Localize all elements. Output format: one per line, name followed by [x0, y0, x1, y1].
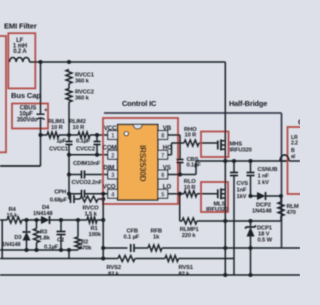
svg-text:1 kV: 1 kV	[258, 180, 270, 186]
wire bus down	[68, 155, 70, 199]
svg-text:15 k: 15 k	[7, 213, 19, 219]
resistor RVCC2	[66, 84, 94, 103]
node VS-halfbridge	[223, 159, 227, 163]
resistor RLO	[180, 179, 218, 197]
transistor MHS highlight box	[201, 132, 229, 158]
svg-text:CVCO2.2nF: CVCO2.2nF	[72, 180, 103, 186]
pin 7 HO	[158, 145, 172, 160]
svg-text:470k: 470k	[79, 246, 92, 252]
svg-text:CDIM10nF: CDIM10nF	[73, 161, 101, 167]
node VCO-R1	[101, 192, 105, 196]
svg-text:CVCC2: CVCC2	[76, 146, 95, 152]
svg-text:10 R: 10 R	[73, 125, 86, 131]
section label Half-Bridge	[229, 99, 267, 108]
svg-text:360 k: 360 k	[75, 79, 90, 85]
wire top rail	[30, 61, 226, 63]
resistor RLIM1	[41, 119, 70, 138]
resistor RLMP2	[278, 196, 299, 221]
pin 2 COM	[103, 145, 118, 160]
svg-text:EMI Filter: EMI Filter	[4, 22, 37, 31]
wire RVCC to VCC	[68, 102, 70, 135]
capacitor CBUS value label	[17, 105, 38, 124]
section label EMI Filter	[4, 22, 37, 31]
wire ground drop	[67, 248, 71, 259]
resistor RFB	[148, 229, 300, 252]
svg-text:Ou: Ou	[298, 118, 300, 127]
resistor RVCO	[80, 196, 103, 218]
svg-text:1N4148: 1N4148	[2, 242, 20, 248]
svg-text:0.2 A: 0.2 A	[13, 49, 27, 55]
svg-text:C1: C1	[57, 238, 64, 244]
svg-text:IRFU320: IRFU320	[230, 147, 252, 153]
inductor LRES highlight box	[288, 127, 308, 194]
section label Bus Cap	[11, 91, 41, 100]
resistor RLMP1	[180, 194, 282, 239]
section label Output (cut)	[298, 118, 309, 127]
svg-text:1k: 1k	[153, 235, 160, 241]
diode D4	[33, 205, 61, 224]
node VCC junction	[67, 133, 71, 137]
svg-text:Bus Cap: Bus Cap	[11, 91, 41, 100]
inductor LRES	[280, 135, 300, 161]
inductor LF value label	[13, 38, 28, 55]
resistor RVCC1	[66, 70, 95, 85]
wire left edge	[1, 220, 3, 259]
svg-text:CSNUB: CSNUB	[258, 167, 278, 173]
capacitor CDIM	[67, 161, 108, 179]
node COM junction	[67, 153, 71, 157]
node CBUS-RLIM1	[38, 133, 42, 137]
IC IRS2530D body	[118, 125, 158, 201]
svg-text:RVS2: RVS2	[107, 265, 121, 271]
wire LO	[168, 193, 180, 195]
svg-text:2.2: 2.2	[291, 141, 298, 147]
svg-text:0.1 µF: 0.1 µF	[124, 235, 140, 241]
svg-text:IRFU320: IRFU320	[206, 207, 228, 213]
svg-text:0.1µF: 0.1µF	[187, 162, 202, 168]
wire VS pin	[168, 161, 196, 177]
svg-text:CVCC1: CVCC1	[49, 146, 69, 152]
inductor LF	[10, 58, 30, 63]
resistor RLIM2	[69, 119, 108, 138]
node R3 top	[34, 218, 38, 222]
node MLS source-RLMP1	[223, 219, 227, 223]
wire ground left	[0, 248, 78, 252]
pin 8 VB	[158, 125, 172, 140]
capacitor CBS	[177, 157, 202, 175]
svg-text:1N4148: 1N4148	[252, 209, 272, 215]
transistor MLS highlight box	[201, 182, 228, 212]
svg-text:220 k: 220 k	[182, 233, 197, 239]
IC IRS2530D name	[138, 145, 147, 182]
svg-text:RVS1: RVS1	[179, 265, 194, 271]
node LO junction	[178, 192, 182, 196]
EMI filter highlight box	[8, 33, 35, 88]
op-amp U1 IRS2530D highlight box	[103, 118, 178, 204]
wire D3 junction	[24, 218, 36, 222]
wire COM return left	[0, 165, 41, 167]
CBUS highlight box	[12, 104, 48, 129]
svg-text:0.1µF: 0.1µF	[76, 139, 91, 145]
diode D3	[2, 220, 31, 250]
svg-text:0.5 W: 0.5 W	[258, 238, 273, 244]
node DCP1 top	[248, 219, 252, 223]
svg-text:0.68µF: 0.68µF	[50, 198, 68, 204]
resistor R3	[34, 220, 51, 250]
node DCP1-CFB wire	[248, 246, 252, 250]
left offscreen highlight box	[0, 36, 6, 152]
transistor Q1 MHS	[218, 62, 252, 161]
svg-text:IRS2530D: IRS2530D	[138, 145, 147, 182]
capacitor CVCO	[67, 180, 108, 198]
node rail-CBUS	[38, 60, 42, 64]
resistor RVS1	[135, 256, 234, 278]
resistor RVS2	[0, 256, 135, 278]
svg-text:1N4148: 1N4148	[33, 211, 53, 217]
node MLS source-CFB wire	[223, 246, 227, 250]
wire CSNUB ground	[250, 248, 252, 275]
resistor R4	[7, 207, 29, 223]
wire COM	[69, 154, 108, 156]
svg-text:100k: 100k	[89, 232, 102, 238]
resistor RHO	[172, 127, 218, 146]
wire VB	[168, 135, 180, 160]
node R1-VCO	[101, 218, 105, 222]
svg-text:Half-Bridge: Half-Bridge	[229, 99, 267, 108]
node CFB-VCO	[101, 246, 105, 250]
svg-text:10 R: 10 R	[51, 125, 64, 131]
svg-text:Control IC: Control IC	[122, 99, 157, 108]
wire R4 rail	[0, 219, 7, 221]
capacitor CVCC2	[76, 133, 101, 157]
capacitor CPH	[50, 190, 80, 204]
svg-text:350Vdc: 350Vdc	[17, 116, 38, 123]
svg-text:+: +	[44, 107, 48, 114]
pin 4 VCO	[103, 184, 118, 199]
resistor R1	[61, 217, 103, 238]
svg-text:1nF: 1nF	[237, 188, 247, 194]
node DCP1-bottom	[248, 273, 252, 277]
node VCO-bus261	[101, 256, 105, 260]
resistor R2	[75, 220, 92, 252]
svg-text:1kV: 1kV	[237, 194, 247, 200]
zener DCP1	[245, 221, 273, 248]
wire VCO node	[103, 194, 108, 259]
pin 3 DIM	[103, 164, 117, 179]
svg-text:CVS: CVS	[237, 181, 249, 187]
capacitor CVCC1	[49, 135, 72, 155]
node MLS-bottom	[223, 273, 227, 277]
pin 1 VCC	[104, 125, 118, 140]
node RVCO-VCO	[101, 197, 105, 201]
node rail-RVCC	[67, 60, 71, 64]
svg-text:360 k: 360 k	[75, 96, 90, 102]
svg-text:CPH: CPH	[54, 190, 66, 196]
svg-text:470: 470	[287, 210, 296, 216]
pin 5 LO	[158, 184, 172, 199]
capacitor CFB	[103, 229, 148, 253]
section label Control IC	[122, 99, 157, 108]
svg-text:1 nF: 1 nF	[258, 174, 270, 180]
wire bottom bus	[0, 274, 300, 276]
capacitor CBUS	[37, 62, 49, 166]
wire bus261 corner	[233, 259, 235, 276]
svg-text:1.8k: 1.8k	[39, 236, 51, 242]
svg-text:10 R: 10 R	[184, 185, 197, 191]
svg-text:1µF: 1µF	[56, 139, 66, 145]
section box Control IC / Half-Bridge	[104, 113, 282, 248]
svg-text:10 R: 10 R	[185, 132, 198, 138]
transistor Q2 MLS	[206, 161, 228, 275]
svg-text:al: al	[291, 154, 296, 160]
svg-text:D3: D3	[14, 235, 22, 241]
capacitor CSNUB	[247, 159, 278, 196]
capacitor C1	[44, 218, 66, 251]
pin 6 VS	[158, 164, 171, 179]
diode DCP2	[248, 192, 283, 215]
wire VS rail	[196, 160, 287, 162]
wire HO	[168, 143, 172, 155]
capacitor CVS	[230, 159, 248, 259]
